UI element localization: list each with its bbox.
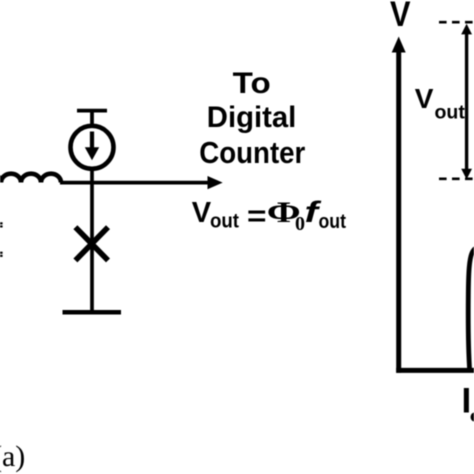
Vout span double arrow [461, 24, 472, 180]
svg-text:out: out [435, 101, 466, 123]
dashed line bottom (V level) [439, 177, 473, 180]
IV curve (steep rise at right edge) [468, 248, 474, 372]
I axis (horizontal) [396, 368, 474, 373]
dashed line top (V level) [439, 21, 473, 24]
cut-off text mark 2 (left edge) [0, 252, 3, 257]
ground (bottom bar) [63, 310, 122, 315]
V axis (vertical, with arrowhead) [392, 37, 406, 373]
wire: output line with arrow to digital counter [92, 176, 223, 189]
svg-text:To: To [233, 67, 271, 100]
svg-text:out: out [319, 211, 347, 233]
svg-text:(a): (a) [0, 440, 25, 473]
svg-text:Digital: Digital [207, 101, 296, 134]
current source Ib (circle with down arrow) [71, 126, 114, 169]
label: Vout = Phi0 fout [192, 196, 347, 235]
label: Vout (graph) [415, 83, 466, 123]
svg-text:V: V [192, 197, 212, 229]
wire: terminal to current source [90, 111, 94, 128]
bias terminal bar (top) [77, 109, 107, 113]
inductor L1 (input coupling coil, left edge) [0, 174, 61, 183]
wire: inductor to junction node [60, 181, 92, 185]
josephson junction J1 (X symbol) [75, 227, 108, 260]
label: I (axis) with cut subscript [462, 382, 474, 422]
svg-text:Counter: Counter [199, 135, 305, 170]
svg-text:0: 0 [295, 213, 305, 235]
svg-text:I: I [462, 382, 472, 421]
svg-text:out: out [210, 211, 239, 233]
cut-off text mark 1 (left edge) [0, 222, 3, 227]
wire: current source through node to junction [90, 168, 94, 310]
svg-text:V: V [390, 0, 411, 34]
label: To Digital Counter [199, 67, 305, 170]
svg-text:V: V [415, 83, 434, 114]
svg-text:=: = [247, 200, 267, 232]
